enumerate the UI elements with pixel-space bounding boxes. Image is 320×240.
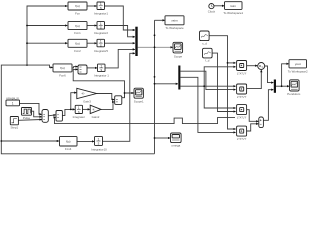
block Demux bar — [178, 66, 180, 90]
block f_d source — [203, 48, 213, 62]
block Product4 — [237, 126, 247, 141]
wire 2-in block out to Integrator9 with branch — [62, 109, 74, 115]
wire row4 mux to Integrator4 — [87, 67, 97, 69]
svg-text:Integrator: Integrator — [73, 115, 85, 119]
wire to omega block — [155, 137, 171, 139]
block Step1 — [10, 117, 18, 130]
wire Integrator1 to Mux in1 — [105, 6, 135, 30]
block sum 2-in right of gains — [115, 96, 122, 105]
svg-text:Fcn6: Fcn6 — [59, 73, 66, 77]
block Gain2 triangle — [90, 105, 101, 119]
svg-text:omega_in: omega_in — [6, 96, 19, 100]
node dot on scope wire — [281, 85, 283, 87]
block Pendulum scope — [287, 80, 301, 96]
svg-text:f(u): f(u) — [75, 42, 80, 46]
block small sum2 — [259, 117, 264, 128]
svg-text:Integrator1: Integrator1 — [94, 12, 108, 16]
block row4 input mux — [78, 65, 87, 74]
wire into Fcn4 chain: Fcn4 to Integrator10 — [77, 140, 94, 142]
svg-text:Integrator10: Integrator10 — [91, 147, 107, 151]
block 2-in selector — [56, 111, 62, 122]
block Fcn4 — [60, 137, 78, 151]
block Product2 — [237, 84, 247, 99]
wire Clock to To Workspace1 — [214, 5, 224, 7]
wire block B (f_d) down to Product4 in1 — [212, 53, 236, 111]
svg-text:1: 1 — [12, 102, 14, 106]
wire demux out3 to Product2 in1 — [181, 85, 236, 87]
svg-text:Pulse: Pulse — [23, 116, 31, 120]
svg-text:f(u): f(u) — [60, 66, 65, 70]
wire Fcn3 to row4 mux in1 — [72, 67, 78, 68]
svg-text:f(u): f(u) — [75, 24, 80, 28]
svg-text:Scope1: Scope1 — [134, 100, 144, 104]
svg-text:Scope: Scope — [174, 55, 183, 59]
wire Mux output to Scope — [138, 46, 173, 48]
wire Fcn1 to Integrator2 — [87, 25, 97, 27]
svg-text:Step1: Step1 — [11, 126, 19, 130]
wire Integrator4 to Mux in4 — [105, 49, 135, 68]
node dot on left vertical — [0, 140, 2, 142]
svg-text:yout: yout — [295, 62, 301, 66]
wire to To Workspace — [155, 19, 165, 21]
svg-text:Integrator 1: Integrator 1 — [94, 74, 109, 78]
svg-text:s: s — [100, 26, 102, 30]
block To Workspace2 — [288, 60, 308, 74]
svg-text:To Workspace1: To Workspace1 — [223, 11, 243, 15]
svg-text:L*X*L*f: L*X*L*f — [237, 137, 247, 141]
svg-text:f(u): f(u) — [66, 140, 71, 144]
block To Workspace1 — [223, 2, 243, 15]
svg-text:Integrator5: Integrator5 — [94, 49, 108, 53]
block Product1 — [237, 61, 247, 76]
block Integrator1 — [94, 2, 108, 16]
block Scope1 — [134, 88, 144, 103]
block Fcn1 — [68, 22, 87, 35]
svg-text:Clock: Clock — [208, 10, 216, 14]
svg-text:Gain2: Gain2 — [92, 115, 100, 119]
wire Mux2 out to Pendulum scope — [276, 85, 289, 87]
svg-text:Integrator2: Integrator2 — [94, 31, 108, 35]
svg-text:omega: omega — [171, 144, 180, 148]
svg-text:x_d: x_d — [202, 41, 207, 45]
svg-text:Fcn: Fcn — [75, 12, 80, 16]
block Gain3 triangle — [77, 88, 97, 103]
wire Integrator2 to Mux in2 — [105, 26, 135, 37]
wire main state vertical x=154.5 — [154, 20, 156, 154]
svg-text:Pendulum: Pendulum — [287, 92, 301, 96]
wire Product3 out to small sum in1 — [247, 110, 258, 122]
svg-text:s: s — [100, 43, 102, 47]
block Integrator3 — [94, 39, 108, 53]
wire row1 input from left vertical — [27, 6, 67, 65]
wire Gain3 out to sum2in in1 — [97, 94, 115, 100]
wire Product1 out to Sum — [247, 65, 257, 67]
svg-text:s: s — [98, 141, 100, 145]
block Pulse generator — [22, 108, 32, 121]
svg-text:Gain3: Gain3 — [83, 99, 91, 103]
wire branch up to To Workspace2 — [282, 64, 289, 86]
wire row3 branch — [27, 42, 67, 44]
block Integrator9 — [73, 105, 85, 119]
node dot demux branch — [203, 85, 205, 87]
block Fcn3 — [53, 64, 72, 78]
svg-text:f_d: f_d — [205, 59, 210, 63]
wire small sum out up to Mux2 in2 — [263, 90, 273, 121]
wire to Demux — [155, 83, 178, 85]
wire branch up to Gain3 — [71, 93, 77, 110]
svg-text:L*X*L*f: L*X*L*f — [237, 95, 247, 99]
wire Integrator3 to Mux in3 — [105, 42, 135, 44]
block omega display — [171, 133, 182, 148]
svg-text:-K-: -K- — [92, 108, 96, 112]
svg-text:Fcn2: Fcn2 — [74, 49, 81, 53]
block Constant with label above — [6, 96, 20, 106]
svg-text:Fcn1: Fcn1 — [74, 31, 81, 35]
wire Product2 out up to Sum bottom — [247, 70, 261, 89]
svg-text:s: s — [100, 6, 102, 10]
block To Workspace — [165, 16, 184, 30]
block Fcn2 — [68, 39, 87, 53]
wire big feedback left vertical — [1, 65, 154, 154]
node dots on x=154.5 vertical — [154, 34, 156, 139]
wire branch up to Product1 in2 — [204, 67, 235, 86]
node branch dots on x=27 vertical — [26, 25, 28, 66]
block Integrator4 — [94, 64, 109, 78]
svg-text:xsim: xsim — [171, 19, 178, 23]
svg-text:Fcn4: Fcn4 — [65, 147, 72, 151]
wire feedback into row4 mux in2 — [73, 69, 124, 97]
wire branch down to Product3 in1 — [204, 86, 235, 108]
wire step1 to mux3 in3 — [18, 119, 41, 122]
block Product3 — [237, 105, 247, 120]
wire Fcn to Integrator1 — [87, 5, 97, 7]
wire Product4 out to small sum in2 — [247, 124, 258, 131]
svg-text:L*X*L*f: L*X*L*f — [237, 116, 247, 120]
wire demux out2 to Product4 in2 — [181, 77, 236, 132]
block x_d source — [200, 31, 210, 45]
svg-text:To Workspace2: To Workspace2 — [288, 69, 308, 73]
svg-text:L*X*L*f: L*X*L*f — [237, 72, 247, 76]
wire long feedback to bottom-left cluster — [55, 117, 236, 123]
wire Gain2 out to sum2in in2 — [101, 102, 114, 110]
block Integrator2 — [94, 22, 108, 35]
node dot — [124, 92, 126, 94]
wire demux out1 to Product2 in2 — [181, 71, 236, 89]
block Clock — [208, 4, 216, 14]
wire Fcn2 to Integrator3 — [87, 42, 97, 44]
wire row2 branch — [27, 25, 67, 27]
svg-text:f(u): f(u) — [75, 4, 80, 8]
wire block A (x_d) down to Product1 in1 — [209, 36, 236, 129]
wire pulse block to mux3 in2 — [32, 111, 42, 117]
wire branch to Fcn4 — [1, 140, 59, 142]
wire mux3 out to 2-in block in1 — [48, 115, 55, 116]
wire Integrator9 to Gain2 — [83, 108, 90, 110]
svg-text:tsim: tsim — [230, 4, 236, 8]
node dot — [70, 109, 72, 111]
block Mux2 bar — [274, 80, 276, 93]
wire Sum out down to Mux2 in1 — [265, 66, 274, 83]
block Fcn — [68, 2, 87, 16]
wire constant to mux3 in1 — [20, 103, 42, 114]
svg-text:To Workspace: To Workspace — [165, 26, 184, 30]
wire Integrator10 up to Mux in5 — [103, 53, 135, 141]
svg-text:-K-: -K- — [81, 92, 85, 96]
wire sum2in out feedback up (to row4) and scope1 branch — [122, 93, 134, 98]
block Mux1 bar — [135, 27, 137, 56]
block Mux3 (3 inputs) — [42, 110, 48, 123]
block Scope — [173, 42, 183, 58]
svg-text:s: s — [100, 68, 102, 72]
block Integrator10 — [91, 137, 107, 152]
block Sum circle — [258, 63, 265, 70]
